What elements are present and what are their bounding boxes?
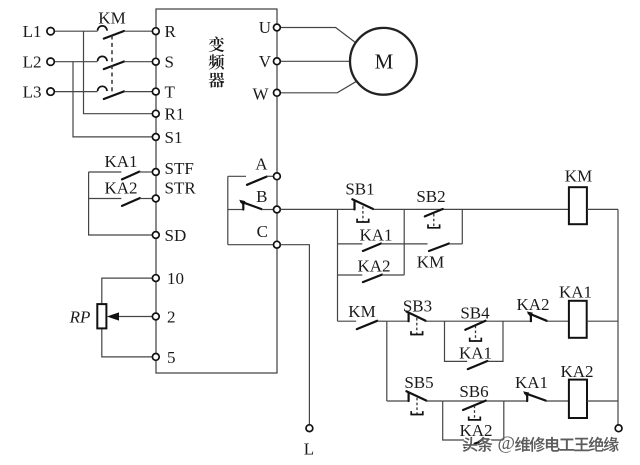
svg-text:SB4: SB4 [460, 303, 490, 322]
svg-text:KM: KM [98, 9, 125, 28]
svg-text:SB6: SB6 [459, 382, 488, 401]
svg-text:L: L [304, 440, 314, 459]
svg-text:STF: STF [165, 159, 194, 178]
svg-text:M: M [375, 50, 394, 74]
svg-text:KA2: KA2 [560, 362, 593, 381]
svg-text:S1: S1 [165, 128, 183, 147]
svg-text:KM: KM [348, 302, 375, 321]
svg-text:SB2: SB2 [416, 187, 445, 206]
svg-text:R1: R1 [165, 105, 185, 124]
svg-text:SB3: SB3 [403, 296, 432, 315]
svg-text:L2: L2 [23, 53, 42, 72]
svg-text:KA2: KA2 [104, 178, 137, 197]
svg-text:V: V [259, 52, 272, 71]
svg-text:KA2: KA2 [516, 295, 549, 314]
svg-text:KA1: KA1 [515, 373, 548, 392]
svg-text:R: R [165, 22, 177, 41]
svg-text:SB1: SB1 [345, 179, 374, 198]
svg-text:S: S [165, 53, 174, 72]
svg-text:A: A [255, 155, 268, 174]
svg-text:B: B [256, 187, 267, 206]
svg-text:KA1: KA1 [359, 225, 392, 244]
svg-text:STR: STR [165, 178, 197, 197]
svg-text:L1: L1 [23, 22, 42, 41]
svg-text:KA2: KA2 [357, 256, 390, 275]
svg-text:@: @ [498, 433, 516, 454]
svg-text:KA1: KA1 [459, 343, 492, 362]
svg-text:KA1: KA1 [559, 282, 592, 301]
svg-text:KA2: KA2 [459, 421, 492, 440]
svg-text:T: T [165, 83, 176, 102]
svg-text:W: W [252, 84, 269, 103]
svg-text:L3: L3 [23, 83, 42, 102]
svg-text:SB5: SB5 [404, 373, 433, 392]
svg-text:KM: KM [417, 252, 444, 271]
svg-text:KM: KM [565, 167, 592, 186]
svg-text:10: 10 [167, 269, 184, 288]
svg-text:U: U [259, 18, 271, 37]
svg-text:KA1: KA1 [104, 152, 137, 171]
svg-text:SD: SD [165, 226, 187, 245]
svg-text:RP: RP [69, 308, 91, 327]
svg-text:2: 2 [167, 307, 176, 326]
svg-text:5: 5 [167, 348, 176, 367]
svg-text:C: C [257, 222, 268, 241]
